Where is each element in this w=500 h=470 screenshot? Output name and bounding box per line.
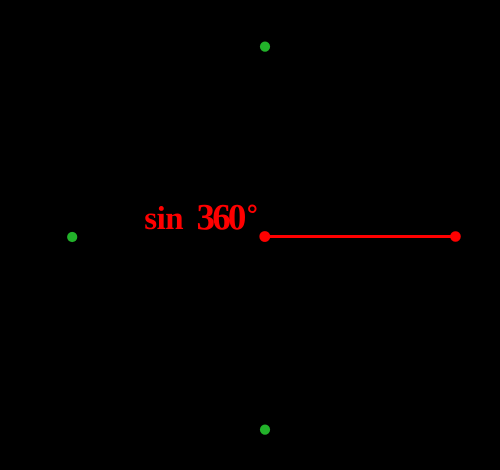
red dot center <box>259 231 270 242</box>
svg-text:sin: sin <box>144 201 183 237</box>
svg-text:360: 360 <box>197 198 246 239</box>
green dot left <box>67 232 77 242</box>
degree symbol <box>249 206 256 213</box>
red radius line <box>265 235 456 238</box>
green dot bottom <box>260 425 270 435</box>
red dot right end <box>450 231 461 242</box>
green dot top <box>260 42 270 52</box>
